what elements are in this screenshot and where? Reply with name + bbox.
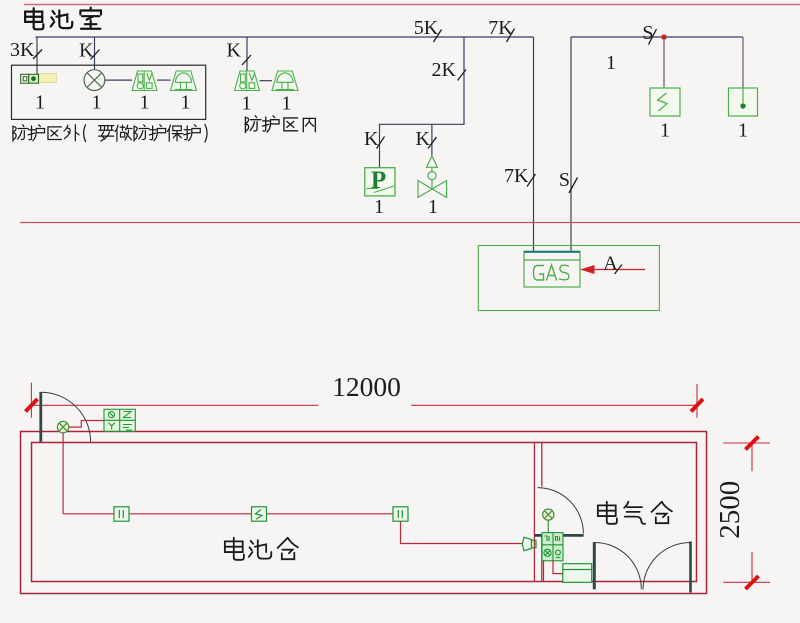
svg-text:3K: 3K bbox=[10, 39, 35, 61]
double door arc right bbox=[643, 543, 690, 590]
gas room box bbox=[478, 246, 659, 311]
tick K zone2 bbox=[242, 55, 251, 65]
tick K bell bbox=[91, 50, 100, 60]
wire riser bbox=[62, 433, 64, 514]
tick S lower bbox=[569, 178, 578, 194]
horn 2 bbox=[272, 71, 298, 91]
door arc left bbox=[41, 392, 90, 442]
horn 1 bbox=[171, 71, 197, 91]
svg-text:1: 1 bbox=[242, 93, 252, 115]
zone label outside bbox=[13, 124, 207, 142]
smoke detector left bbox=[57, 421, 68, 432]
dim line 2500 bbox=[751, 443, 753, 582]
point detector box bbox=[729, 88, 758, 116]
control cluster right bbox=[542, 533, 563, 561]
svg-text:K: K bbox=[416, 128, 431, 150]
svg-text:2500: 2500 bbox=[714, 481, 746, 539]
svg-text:S: S bbox=[559, 169, 570, 191]
junction dot bbox=[662, 35, 667, 40]
smoke detector right bbox=[543, 509, 554, 533]
room label battery bbox=[225, 538, 298, 560]
svg-text:1: 1 bbox=[428, 196, 438, 218]
title 电池室 bbox=[25, 8, 101, 30]
tick 7K lower bbox=[527, 174, 536, 187]
wire S header bbox=[571, 36, 743, 38]
svg-text:12000: 12000 bbox=[332, 371, 401, 402]
svg-text:1: 1 bbox=[660, 120, 670, 142]
wire K drop zone2 bbox=[246, 37, 248, 72]
room outer wall bbox=[21, 432, 707, 594]
svg-text:1: 1 bbox=[606, 52, 616, 74]
tick A bbox=[615, 265, 623, 275]
horizontal rule top bbox=[24, 4, 800, 6]
wire K drop bell bbox=[94, 37, 96, 70]
gas cylinder bbox=[524, 252, 580, 288]
call point 2 bbox=[393, 507, 408, 521]
tick 7K top bbox=[507, 29, 515, 43]
tick S top bbox=[649, 29, 657, 45]
horizontal rule mid bbox=[20, 222, 800, 224]
zone box bbox=[12, 65, 206, 119]
svg-text:P: P bbox=[371, 167, 386, 194]
tick K pressure bbox=[377, 137, 385, 149]
alarm bell bbox=[84, 70, 105, 91]
svg-text:1: 1 bbox=[374, 196, 384, 218]
svg-text:1: 1 bbox=[181, 92, 191, 114]
svg-text:7K: 7K bbox=[504, 165, 529, 187]
section arrow A bbox=[580, 265, 645, 274]
dim tick 2500 top bbox=[746, 437, 759, 450]
wire speaker2 to horn2 bbox=[260, 80, 273, 82]
tick K valve bbox=[428, 137, 437, 149]
double door arc left bbox=[595, 542, 642, 589]
wire bus main bbox=[36, 36, 534, 38]
partition door leaf bbox=[534, 534, 583, 537]
control cluster left bbox=[104, 409, 135, 431]
wire K drop valve bbox=[431, 124, 433, 156]
wire 3K drop bbox=[36, 37, 38, 74]
wire speaker to horn bbox=[157, 79, 171, 81]
flow switch box bbox=[650, 88, 680, 116]
tick 3K bbox=[33, 50, 42, 60]
wire drop to flow switch bbox=[663, 37, 665, 88]
pressure switch P bbox=[365, 167, 395, 196]
wire 2K branch bbox=[380, 37, 465, 168]
svg-text:1: 1 bbox=[35, 92, 45, 114]
partition door arc bbox=[538, 488, 584, 534]
wire detector to cluster bbox=[69, 421, 104, 428]
wire 7K line to GAS bbox=[533, 37, 535, 252]
dim line 12000 bbox=[31, 404, 697, 406]
solenoid valve bbox=[418, 156, 447, 198]
room inner wall bbox=[32, 443, 697, 582]
svg-text:1: 1 bbox=[92, 92, 102, 114]
room label electrical bbox=[598, 502, 672, 524]
svg-text:5K: 5K bbox=[414, 17, 439, 39]
wire bell to speaker bbox=[105, 79, 132, 81]
speaker 1 bbox=[132, 71, 157, 91]
speaker 2 bbox=[235, 71, 260, 91]
svg-text:K: K bbox=[364, 128, 379, 150]
svg-text:S: S bbox=[642, 22, 653, 44]
sounder horn plan bbox=[522, 537, 536, 550]
dim tick 2500 bottom bbox=[746, 576, 759, 589]
door jamb left bbox=[39, 392, 42, 442]
dim tick 12000 right bbox=[691, 399, 703, 412]
svg-text:1: 1 bbox=[738, 120, 748, 142]
dim extension lines 12000 bbox=[31, 383, 697, 418]
zone label inside bbox=[245, 116, 315, 133]
svg-text:K: K bbox=[227, 40, 242, 62]
svg-text:1: 1 bbox=[282, 93, 292, 115]
wire S line to GAS bbox=[570, 37, 572, 252]
call point 1 bbox=[114, 507, 129, 521]
gas label bbox=[534, 265, 569, 280]
wire drop to detector box bbox=[742, 37, 744, 88]
svg-text:2K: 2K bbox=[432, 59, 457, 81]
wire cluster drop 1 bbox=[543, 561, 545, 582]
dim tick 12000 left bbox=[26, 399, 38, 412]
equipment cabinet bbox=[563, 564, 592, 583]
svg-text:1: 1 bbox=[140, 92, 150, 114]
tick 5K bbox=[434, 30, 442, 43]
sounder strobe bbox=[21, 74, 57, 84]
partition wall bbox=[534, 442, 541, 582]
tick 2K bbox=[458, 70, 467, 81]
dim extension lines 2500 bbox=[723, 443, 770, 582]
wire cluster drop 2 bbox=[553, 561, 563, 574]
double door jamb left bbox=[593, 542, 596, 589]
signal module mid bbox=[252, 507, 267, 521]
double door jamb right bbox=[689, 542, 692, 593]
wire loop main bbox=[63, 514, 522, 544]
